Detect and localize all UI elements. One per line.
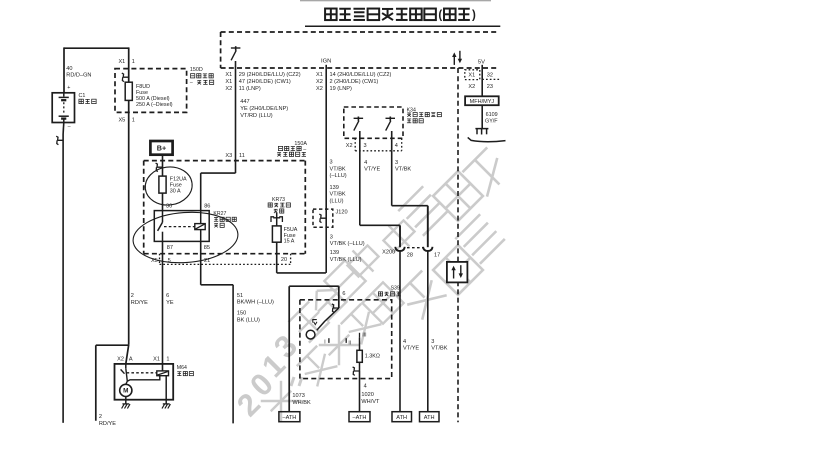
svg-text:447: 447 xyxy=(240,99,249,105)
svg-text:30: 30 xyxy=(166,204,172,210)
label pin 20 xyxy=(281,257,287,263)
svg-text:WH/VT: WH/VT xyxy=(361,399,380,405)
connector row X3|11 xyxy=(225,153,244,159)
svg-text:WH/BK: WH/BK xyxy=(292,400,311,406)
svg-text:2 (2H0/LDE) (CW1): 2 (2H0/LDE) (CW1) xyxy=(330,79,379,85)
serial data bus dashed line xyxy=(457,68,459,422)
svg-text:1: 1 xyxy=(166,357,169,363)
label J120 xyxy=(336,210,348,216)
label 3 VT/BK (-LLU) upper xyxy=(330,160,347,180)
label 139 VT/BK (LLU) lower xyxy=(330,250,362,263)
svg-text:1.3KΩ: 1.3KΩ xyxy=(365,354,380,360)
label 3 VT/BK upper xyxy=(395,160,411,173)
connector X200 link dash xyxy=(407,247,423,249)
label pin 4 xyxy=(364,383,367,389)
label pin 17 xyxy=(434,253,440,259)
wire X200-17 to ATH xyxy=(427,251,429,412)
switch contact K34 right xyxy=(386,117,396,131)
label F5UA Fuse 15A xyxy=(284,227,298,245)
ignition switch S39 dashed box xyxy=(300,300,392,379)
terminal box -ATH right xyxy=(349,412,370,422)
connector pin X1|32 with dashed cell xyxy=(465,70,499,80)
svg-text:28: 28 xyxy=(407,253,413,259)
svg-text:1073: 1073 xyxy=(292,393,304,399)
svg-text:X1: X1 xyxy=(316,72,323,78)
connector J120 clip xyxy=(319,212,326,273)
svg-text:23: 23 xyxy=(487,84,493,90)
label F12UA Fuse 30A xyxy=(170,177,187,195)
title underline xyxy=(305,25,500,27)
svg-text:VT/BK (–LLU): VT/BK (–LLU) xyxy=(330,241,365,247)
label 150 BK (LLU) xyxy=(237,311,260,324)
connector pins X1/X2/X2 14/2/19 xyxy=(316,65,391,92)
svg-text:3: 3 xyxy=(330,234,333,240)
annotation ellipse around F12UA xyxy=(143,164,194,207)
svg-text:X2: X2 xyxy=(225,86,232,92)
ground under solenoid xyxy=(162,404,170,409)
connector pin X2|23 xyxy=(468,84,493,90)
svg-text:YE: YE xyxy=(166,300,174,306)
relay KR73 contact symbol xyxy=(271,213,282,226)
label pin 28 xyxy=(407,253,413,259)
title 起动和充电示意图(起动) xyxy=(300,1,491,22)
svg-text:+: + xyxy=(67,85,70,91)
wire K34 pin3 to X200-28 xyxy=(360,151,400,247)
S39 pin6 contact clip xyxy=(332,304,339,313)
svg-text:X1: X1 xyxy=(118,59,125,65)
wire IGN VT/BK down xyxy=(325,92,327,212)
label F8UD Fuse 500A/250A xyxy=(136,84,173,108)
starter solenoid link dashed xyxy=(127,372,157,374)
label 1020 WH/VT xyxy=(361,392,380,405)
svg-text:RD/YE: RD/YE xyxy=(131,300,148,306)
relay KR27 contact xyxy=(158,211,163,242)
svg-text:J120: J120 xyxy=(336,210,348,216)
label pin 86 xyxy=(204,204,210,210)
label C1 蓄电池 xyxy=(79,93,97,104)
svg-text:X5: X5 xyxy=(151,258,158,264)
svg-text:6109: 6109 xyxy=(486,112,498,118)
svg-text:–: – xyxy=(68,124,71,130)
svg-text:RD/YE: RD/YE xyxy=(99,421,116,427)
svg-text:4: 4 xyxy=(403,339,406,345)
label pin 6 xyxy=(342,291,345,297)
wire solenoid to ground xyxy=(165,376,167,404)
svg-text:ATH: ATH xyxy=(424,415,435,421)
label circuit 40 RD/D-GN xyxy=(66,66,91,79)
svg-text:VT/BK: VT/BK xyxy=(330,192,346,198)
label IGN xyxy=(321,59,331,65)
svg-text:20: 20 xyxy=(281,257,287,263)
svg-text:X2: X2 xyxy=(346,143,353,149)
label circuit 447 YE/VTRD xyxy=(240,99,288,119)
svg-text:–: – xyxy=(303,146,306,152)
label 3 VT/BK (-LLU) lower xyxy=(330,234,365,247)
svg-text:X5: X5 xyxy=(118,117,125,123)
connector row X2|3|4 xyxy=(346,131,402,151)
svg-text:4: 4 xyxy=(395,143,398,149)
svg-text:X1: X1 xyxy=(225,79,232,85)
svg-text:X2: X2 xyxy=(316,79,323,85)
svg-text:139: 139 xyxy=(330,185,339,191)
wire S39 III to resistor xyxy=(359,338,361,351)
svg-text:X2: X2 xyxy=(316,86,323,92)
clip under B+ xyxy=(156,163,163,172)
svg-text:BK (LLU): BK (LLU) xyxy=(237,317,260,323)
svg-text:4: 4 xyxy=(364,383,367,389)
svg-text:VT/RD (LLU): VT/RD (LLU) xyxy=(240,113,272,119)
label 5V xyxy=(478,60,485,66)
connector J120 dashed box xyxy=(313,209,333,227)
wire S39 pin4 to ATH xyxy=(359,371,361,412)
label M64 起动机 xyxy=(177,365,194,376)
svg-text:GY/F: GY/F xyxy=(485,119,498,125)
fuse F12UA symbol xyxy=(159,176,166,193)
wire 447 jog to relay pin86 xyxy=(201,173,236,211)
svg-text:VT/YE: VT/YE xyxy=(364,167,380,173)
underhood fuse box pin strip fine dashed xyxy=(160,254,291,265)
label circuit 2 RD/YE upper xyxy=(131,293,148,306)
label 150D 保险丝盒-蓄电池 xyxy=(190,67,214,86)
svg-text:II: II xyxy=(348,340,351,346)
svg-text:S39: S39 xyxy=(391,286,400,292)
wire resistor down xyxy=(359,362,361,371)
S39 switch blade xyxy=(317,308,339,330)
svg-text:250 A (–Diesel): 250 A (–Diesel) xyxy=(136,102,173,108)
svg-text:X1: X1 xyxy=(153,357,160,363)
wire B+ down to fuse F12UA xyxy=(162,155,164,176)
label 1073 WH/BK xyxy=(292,393,311,406)
svg-text:–ATH: –ATH xyxy=(282,415,296,421)
battery negative clip xyxy=(56,136,63,145)
svg-text:2: 2 xyxy=(99,414,102,420)
svg-text:3: 3 xyxy=(364,143,367,149)
svg-text:14 (2H0/LDE/LLU) (CZ2): 14 (2H0/LDE/LLU) (CZ2) xyxy=(330,72,392,78)
S39 common circle xyxy=(306,330,315,339)
label circuit 2 RD/YE lower xyxy=(99,414,116,427)
label 51 BK/WH (-LLU) xyxy=(237,293,274,306)
label 150A 保险丝盒-发动机罩下 xyxy=(277,141,307,157)
wire X200-28 to ATH xyxy=(399,251,401,412)
wire motor to ground xyxy=(125,397,127,404)
terminal box ATH right xyxy=(420,412,440,422)
svg-text:86: 86 xyxy=(204,204,210,210)
wire S39 pin6 feed xyxy=(289,286,339,412)
connector pins X1/X1/X2 29/47/11 xyxy=(225,68,300,92)
label pin 30 xyxy=(166,204,172,210)
wire 447 YE down to X3-11 xyxy=(235,92,237,174)
svg-text:X200: X200 xyxy=(382,249,395,255)
svg-text:11: 11 xyxy=(239,153,245,159)
starter contact xyxy=(121,364,160,384)
svg-text:85: 85 xyxy=(204,245,210,251)
label 3 VT/BK lower xyxy=(431,339,447,352)
S39 position II xyxy=(346,338,351,346)
module K34 dashed box xyxy=(344,107,403,138)
svg-text:6: 6 xyxy=(342,291,345,297)
svg-text:A: A xyxy=(129,357,133,363)
wire fuse box to starter pin A xyxy=(126,100,129,364)
starter motor M xyxy=(120,384,132,396)
svg-text:X1: X1 xyxy=(468,73,475,79)
connector row X1|1 starter xyxy=(153,357,169,363)
svg-text:KR73: KR73 xyxy=(272,197,285,203)
label KR27 起动机继电器 xyxy=(213,211,236,227)
svg-text:VT/BK (LLU): VT/BK (LLU) xyxy=(330,257,362,263)
S39 position III xyxy=(360,333,367,339)
relay KR27 armature link dashed xyxy=(164,226,195,228)
svg-text:17: 17 xyxy=(434,253,440,259)
label X200 xyxy=(382,249,395,255)
switch contact K34 left xyxy=(354,117,364,131)
label 4 VT/YE upper xyxy=(364,160,380,173)
underhood fuse box 150A dashed box xyxy=(144,161,306,254)
svg-text:VT/BK: VT/BK xyxy=(395,167,411,173)
svg-text:11 (LNP): 11 (LNP) xyxy=(239,86,261,92)
label 6109 GY/F xyxy=(485,112,498,124)
label 1.3KΩ xyxy=(365,354,380,360)
svg-text:B+: B+ xyxy=(157,144,166,153)
svg-text:I: I xyxy=(324,340,325,346)
connector row X1|1 (fuse box top) xyxy=(118,59,134,65)
svg-text:C1: C1 xyxy=(79,93,86,99)
terminal box ATH left xyxy=(392,412,412,422)
svg-text:5: 5 xyxy=(168,258,171,264)
svg-text:X1: X1 xyxy=(225,72,232,78)
svg-text:2: 2 xyxy=(131,293,134,299)
wire 5V down xyxy=(481,65,483,97)
svg-text:X3: X3 xyxy=(225,153,232,159)
starter solenoid coil xyxy=(157,371,169,376)
svg-text:3: 3 xyxy=(431,339,434,345)
clip in fuse box xyxy=(122,73,129,82)
ignition feed switch contact xyxy=(231,46,241,68)
label circuit 6 YE xyxy=(166,293,174,306)
connector X200 right half xyxy=(423,247,432,251)
ground under motor xyxy=(122,404,130,409)
wire relay 85 to ground 51 xyxy=(201,241,233,423)
connector row X5|1 (fuse box bottom) xyxy=(118,117,134,123)
module MFH/MYJ box xyxy=(465,96,499,105)
relay KR27 coil wires xyxy=(200,211,202,242)
svg-text:YE (2H0/LDE/LNP): YE (2H0/LDE/LNP) xyxy=(240,106,288,112)
svg-text:150: 150 xyxy=(237,311,246,317)
svg-text:): ) xyxy=(472,9,476,21)
svg-text:3: 3 xyxy=(395,160,398,166)
svg-text:M64: M64 xyxy=(177,365,187,371)
svg-text:139: 139 xyxy=(330,250,339,256)
svg-text:87: 87 xyxy=(167,245,173,251)
svg-text:BK/WH (–LLU): BK/WH (–LLU) xyxy=(237,300,274,306)
svg-text:4: 4 xyxy=(364,160,367,166)
wire F12UA to relay pin30 xyxy=(162,193,164,211)
fuse F5UA symbol xyxy=(272,226,281,242)
terminal box -ATH left xyxy=(279,412,300,422)
svg-text:29 (2H0/LDE/LLU) (CZ2): 29 (2H0/LDE/LLU) (CZ2) xyxy=(239,72,301,78)
fuse box 150D dashed box xyxy=(115,69,187,113)
wire battery to fuse box xyxy=(128,47,130,82)
svg-text:(: ( xyxy=(438,9,442,21)
S39 position I xyxy=(324,338,329,345)
fuse F8UD symbol xyxy=(125,82,132,100)
label pin 85 xyxy=(204,245,210,251)
svg-text:(LLU): (LLU) xyxy=(330,198,344,204)
svg-text:VT/BK: VT/BK xyxy=(431,346,447,352)
svg-text:51: 51 xyxy=(237,293,243,299)
label KR73 点火主继电器 xyxy=(268,197,290,213)
svg-text:X2: X2 xyxy=(468,84,475,90)
svg-text:–: – xyxy=(190,80,193,86)
S39 wiper mark xyxy=(313,320,317,325)
wire F5UA join VT/BK xyxy=(277,242,326,273)
S39 lower clip xyxy=(353,367,360,376)
relay KR27 coil xyxy=(195,224,205,230)
svg-text:30 A: 30 A xyxy=(170,188,181,194)
svg-text:5V: 5V xyxy=(478,60,485,66)
label K34 无钥匙进入控制模块 xyxy=(407,107,442,123)
connector X200 left half xyxy=(395,247,404,251)
svg-text:M: M xyxy=(123,388,128,395)
svg-text:ATH: ATH xyxy=(396,415,407,421)
terminal B+ box xyxy=(150,141,172,155)
serial data continuation box with arrows xyxy=(447,262,468,283)
svg-text:(–LLU): (–LLU) xyxy=(330,173,347,179)
svg-text:IGN: IGN xyxy=(321,59,331,65)
label S39 点火开关 xyxy=(378,286,400,296)
starter M64 box xyxy=(115,364,174,400)
serial data arrows top xyxy=(452,51,462,65)
connector row X5|5|21 xyxy=(151,258,210,264)
svg-text:MFH/MYJ: MFH/MYJ xyxy=(470,99,495,105)
svg-text:21: 21 xyxy=(204,258,210,264)
ground comb G109 xyxy=(468,129,506,142)
resistor 1.3K symbol xyxy=(357,350,362,362)
connector row X2|A xyxy=(117,357,133,363)
wire relay 87 to starter solenoid xyxy=(162,241,164,371)
svg-text:15 A: 15 A xyxy=(284,239,295,245)
svg-text:3: 3 xyxy=(330,160,333,166)
wire branch to off-page 2 RD/YE xyxy=(96,345,129,421)
svg-text:VT/YE: VT/YE xyxy=(403,346,419,352)
label 4 VT/YE lower xyxy=(403,339,419,352)
svg-text:40: 40 xyxy=(66,66,72,72)
svg-text:–ATH: –ATH xyxy=(353,415,367,421)
svg-text:6: 6 xyxy=(166,293,169,299)
label pin 87 xyxy=(167,245,173,251)
svg-text:X2: X2 xyxy=(117,357,124,363)
svg-text:VT/BK: VT/BK xyxy=(330,166,346,172)
wire K34 pin4 to X200-17 xyxy=(392,151,428,247)
svg-text:1: 1 xyxy=(132,117,135,123)
wire MFH/MYJ to ground xyxy=(481,105,483,128)
annotation ellipse around relay xyxy=(131,209,239,266)
svg-text:32: 32 xyxy=(487,73,493,79)
svg-text:RD/D–GN: RD/D–GN xyxy=(66,73,91,79)
svg-text:1: 1 xyxy=(132,59,135,65)
svg-text:150D: 150D xyxy=(190,67,203,73)
wire battery positive top run xyxy=(64,47,129,92)
wire battery negative down xyxy=(62,123,65,423)
module dashed box (ignition housing) xyxy=(221,32,500,68)
watermark 2013年全国中等职业 杯 汽车运用与 xyxy=(230,147,512,423)
label 139 VT/BK (LLU) upper xyxy=(330,185,346,205)
svg-text:1020: 1020 xyxy=(361,392,373,398)
svg-text:47 (2H0/LDE) (CW1): 47 (2H0/LDE) (CW1) xyxy=(239,79,291,85)
battery C1 xyxy=(52,85,74,130)
relay KR27 box xyxy=(154,211,209,242)
svg-text:19 (LNP): 19 (LNP) xyxy=(330,86,353,92)
svg-text:III: III xyxy=(362,333,366,339)
